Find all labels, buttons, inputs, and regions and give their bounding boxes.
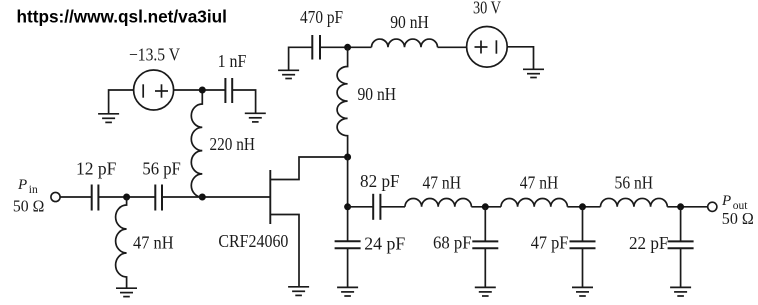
- output terminal: [708, 202, 717, 211]
- inductor L7 56 nH: [601, 198, 668, 206]
- voltage source V1 -13.5 V: [134, 70, 174, 110]
- input terminal: [51, 192, 60, 201]
- ground for Q1 source: [288, 287, 309, 296]
- wire C1 to C2: [98, 196, 155, 198]
- node H junction dot: [579, 203, 586, 210]
- input port Pin label: [13, 177, 44, 216]
- wire V1 to node C: [174, 89, 226, 91]
- svg-text:CRF24060: CRF24060: [218, 231, 288, 251]
- wire C4 to node D and L4: [320, 46, 372, 48]
- svg-text:47 nH: 47 nH: [133, 233, 174, 253]
- ground for C4 (left of 470 pF): [278, 70, 299, 78]
- ground for C3: [245, 113, 266, 122]
- node G junction dot: [482, 203, 489, 210]
- node A junction dot: [123, 194, 130, 201]
- svg-text:47 pF: 47 pF: [531, 233, 569, 253]
- wire ground to C4: [289, 47, 313, 70]
- capacitor C7 68 pF (shunt): [472, 207, 498, 288]
- capacitor C1 12 pF: [92, 185, 99, 211]
- svg-text:82 pF: 82 pF: [360, 171, 400, 191]
- svg-text:12 pF: 12 pF: [76, 159, 116, 179]
- transistor Q1 CRF24060: [270, 157, 347, 286]
- inductor L5 47 nH: [405, 199, 471, 207]
- svg-text:1 nF: 1 nF: [218, 51, 247, 71]
- svg-text:470 pF: 470 pF: [300, 7, 343, 27]
- ground for L1: [116, 288, 137, 296]
- wire node F to C6: [348, 206, 374, 208]
- svg-text:−13.5 V: −13.5 V: [129, 45, 180, 65]
- svg-text:56 pF: 56 pF: [142, 159, 181, 179]
- svg-text:in: in: [29, 184, 38, 196]
- capacitor C8 47 pF (shunt): [570, 207, 596, 288]
- wire C3 to ground: [232, 90, 255, 113]
- svg-text:68 pF: 68 pF: [433, 233, 472, 253]
- wire C2 to gate: [162, 196, 270, 198]
- wire C5 to ground: [347, 248, 349, 287]
- ground for C9: [670, 287, 691, 296]
- wire drain rail: [347, 157, 349, 241]
- svg-text:90 nH: 90 nH: [390, 12, 429, 32]
- capacitor C9 22 pF (shunt): [668, 207, 694, 288]
- wire input terminal to C1: [60, 196, 91, 198]
- inductor L2 220 nH (bias feed): [191, 90, 202, 197]
- node D junction dot: [344, 44, 351, 51]
- inductor L6 47 nH: [501, 199, 567, 207]
- ground for C8: [572, 287, 593, 296]
- svg-text:https://www.qsl.net/va3iul: https://www.qsl.net/va3iul: [17, 6, 227, 26]
- svg-text:47 nH: 47 nH: [520, 173, 559, 193]
- wire L4 to V2: [438, 46, 467, 48]
- svg-text:22 pF: 22 pF: [629, 233, 669, 253]
- node C junction dot: [199, 87, 206, 94]
- svg-text:50 Ω: 50 Ω: [13, 197, 44, 216]
- output port Pout label: [721, 193, 754, 228]
- ground for V1: [98, 114, 119, 123]
- svg-text:P: P: [17, 177, 27, 193]
- ground for C5: [337, 287, 358, 296]
- wire V2 to ground: [507, 47, 533, 70]
- ground for V2: [523, 69, 544, 77]
- wire L5 to L6: [471, 206, 501, 208]
- wire ground to V1: [109, 90, 134, 114]
- wire C6 to L5: [380, 206, 405, 208]
- node F output junction dot: [344, 203, 351, 210]
- node E drain junction dot: [344, 154, 351, 161]
- capacitor C2 56 pF: [155, 185, 162, 211]
- svg-text:90 nH: 90 nH: [358, 84, 397, 104]
- inductor L4 90 nH (horizontal): [372, 39, 438, 47]
- svg-text:47 nH: 47 nH: [422, 173, 461, 193]
- svg-text:220 nH: 220 nH: [210, 134, 255, 154]
- ground for C7: [475, 287, 496, 296]
- inductor L1 47 nH (shunt): [116, 197, 127, 288]
- inductor L3 90 nH (vertical): [337, 47, 348, 157]
- capacitor C4 470 pF: [312, 35, 320, 60]
- voltage source V2 30 V: [467, 27, 508, 68]
- svg-text:24 pF: 24 pF: [364, 234, 405, 254]
- svg-text:50 Ω: 50 Ω: [722, 209, 754, 228]
- capacitor C5 24 pF (shunt): [335, 241, 361, 248]
- capacitor C3 1 nF: [225, 78, 232, 103]
- svg-text:P: P: [721, 193, 731, 209]
- svg-text:30 V: 30 V: [473, 0, 501, 18]
- svg-text:56 nH: 56 nH: [615, 173, 654, 193]
- wire L6 to L7: [567, 206, 600, 208]
- wire L7 to output terminal: [667, 206, 707, 208]
- node B junction dot: [199, 194, 206, 201]
- node I junction dot: [677, 203, 684, 210]
- capacitor C6 82 pF: [373, 194, 380, 220]
